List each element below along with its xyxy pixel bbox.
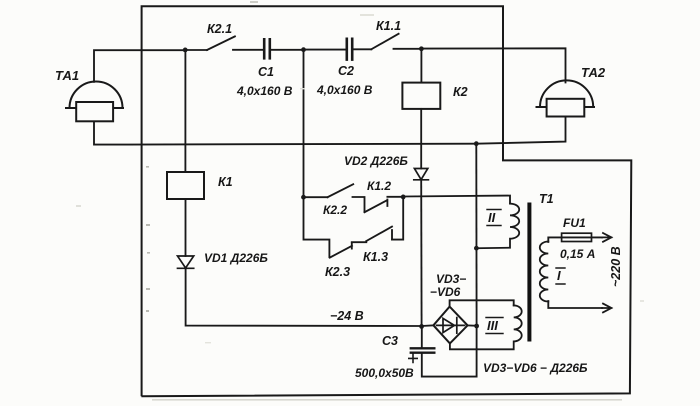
node B junction (301, 47, 306, 52)
wire K2.3 to K1.3 (352, 241, 367, 243)
wire TA1 bottom rail to TA2 bottom (94, 117, 566, 145)
wire K2 to VD2 (420, 109, 422, 169)
wire K2.1 to C1 (233, 49, 263, 51)
wire node A down to relay K1 (184, 50, 186, 172)
capacitor C1 (264, 39, 270, 58)
svg-text:К2.1: К2.1 (207, 22, 232, 36)
node C junction (419, 46, 424, 51)
diode VD1 (178, 256, 194, 268)
wire K1.1 to node C (394, 48, 422, 50)
relay K2 (402, 83, 440, 109)
svg-text:К1.1: К1.1 (376, 19, 401, 33)
wire K2.2 to K1.2 jog (353, 197, 365, 212)
svg-text:VD1 Д226Б: VD1 Д226Б (204, 251, 268, 265)
switch K2.1 (207, 36, 235, 50)
svg-text:К1: К1 (218, 175, 233, 189)
svg-text:VD3−VD6 − Д226Б: VD3−VD6 − Д226Б (483, 361, 588, 375)
transformer T1 core (527, 203, 531, 342)
svg-text:К1.3: К1.3 (363, 250, 388, 264)
svg-text:−VD6: −VD6 (430, 285, 461, 299)
wire C1 to node B (271, 49, 304, 51)
svg-text:0,15 А: 0,15 А (560, 247, 595, 261)
wire node D down through node H (475, 144, 477, 326)
svg-text:FU1: FU1 (563, 216, 586, 230)
scan noise marks (76, 1, 644, 401)
wire bridge right vertex to node H (468, 324, 477, 326)
svg-text:Т1: Т1 (539, 192, 554, 206)
handset TA2 (537, 80, 595, 116)
svg-text:VD3−: VD3− (436, 272, 466, 286)
switch K1.2 (365, 200, 388, 213)
svg-text:К1.2: К1.2 (367, 179, 391, 193)
svg-text:VD2 Д226Б: VD2 Д226Б (344, 154, 408, 168)
arrow mains top (602, 233, 611, 242)
wire C2 to switch K1.1 (353, 48, 371, 50)
wire node B down to switch network (303, 50, 305, 197)
svg-text:I: I (557, 268, 561, 283)
wire node E to capacitor C3 (421, 326, 423, 348)
wire C3 bottom route to bridge output (422, 326, 477, 376)
svg-text:С1: С1 (258, 65, 274, 79)
svg-text:~220 В: ~220 В (609, 246, 623, 287)
svg-text:С3: С3 (382, 334, 398, 348)
wire winding I bottom to mains (548, 301, 602, 308)
winding III coil (450, 305, 522, 349)
wire node F to K2.2 (304, 196, 328, 198)
wire K1.3 up to node G (392, 197, 403, 240)
label winding II (487, 210, 501, 226)
relay K1 (167, 172, 204, 199)
capacitor C3 (411, 348, 435, 352)
arrow mains bottom (602, 304, 611, 313)
wire node F down lower branch (304, 197, 330, 257)
switch K2.3 (330, 243, 352, 258)
node I junction (winding II bottom) (474, 246, 479, 251)
winding I coil (540, 242, 549, 302)
svg-text:III: III (487, 318, 498, 333)
node E junction (-24V at C3) (419, 324, 424, 329)
node F junction (301, 195, 306, 200)
svg-text:К2.3: К2.3 (325, 265, 350, 279)
bridge internal diode (437, 318, 465, 334)
wire node A to switch K2.1 (185, 49, 207, 51)
wire VD2 down to node E (420, 180, 422, 327)
svg-text:С2: С2 (338, 64, 354, 78)
svg-text:К2.2: К2.2 (323, 203, 347, 217)
wire node C to TA2 top (421, 48, 565, 82)
switch K1.1 (371, 34, 398, 50)
wire VD1 to -24V rail and to bridge left (186, 268, 434, 326)
wire TA1 top to node A (94, 50, 185, 82)
node G junction (401, 195, 406, 200)
label winding III (486, 318, 503, 334)
border frame (decorative) (141, 6, 631, 396)
node D junction (rail x476) (474, 141, 479, 146)
winding II coil (476, 204, 519, 249)
wire bridge top to winding III top (450, 300, 514, 306)
wire node G to winding II top (403, 196, 510, 204)
wire winding I top to fuse (548, 237, 561, 242)
switch K2.2 (328, 184, 354, 197)
switch K1.3 (366, 227, 392, 241)
fuse FU1 (562, 236, 602, 238)
label winding I (556, 268, 565, 284)
node A junction (183, 48, 188, 53)
diode VD2 (414, 169, 429, 180)
svg-text:ТА1: ТА1 (55, 68, 79, 83)
capacitor C2 (347, 39, 352, 60)
svg-text:ТА2: ТА2 (581, 65, 606, 80)
svg-text:500,0х50В: 500,0х50В (355, 366, 414, 380)
wire node C down to relay K2 (420, 49, 422, 83)
svg-text:II: II (488, 210, 496, 225)
bridge rectifier VD3-VD6 (433, 307, 467, 344)
svg-text:4,0х160 В: 4,0х160 В (316, 83, 373, 97)
svg-text:−24 В: −24 В (330, 309, 364, 323)
handset TA1 (66, 82, 123, 122)
wire K1.2 to node G (387, 196, 403, 198)
C3 polarity plus (409, 354, 417, 362)
wire node B to C2 (304, 49, 346, 51)
svg-text:4,0х160 В: 4,0х160 В (236, 84, 293, 98)
wire K1 to VD1 (185, 199, 187, 256)
svg-text:К2: К2 (453, 85, 468, 99)
node H junction (474, 324, 479, 329)
